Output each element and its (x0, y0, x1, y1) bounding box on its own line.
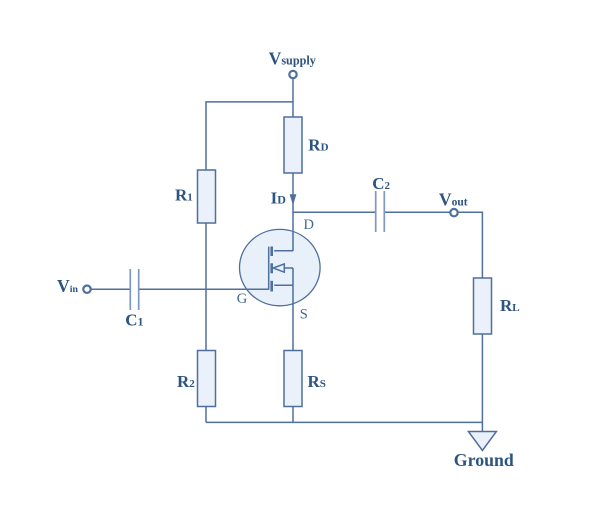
terminal Vin (83, 286, 90, 293)
wire Vin to C1 (91, 288, 130, 290)
wire source to RS (292, 285, 294, 350)
mosfet source internal lead (274, 284, 293, 286)
resistor R2 (198, 351, 216, 407)
wire R1 to R2 (205, 223, 207, 351)
wire R2 to ground bus (205, 407, 207, 423)
wire C1 to gate (139, 288, 268, 290)
resistor RL (474, 278, 492, 334)
mosfet channel bar source (270, 281, 273, 292)
wire Vout to RL (459, 212, 483, 278)
wire supply to RD (292, 79, 294, 117)
resistor RD (284, 117, 302, 173)
capacitor C1 plate left (129, 269, 131, 310)
wire branch supply to R1 (206, 102, 293, 170)
wire C2 to Vout (385, 211, 450, 213)
capacitor C1 plate right (138, 269, 140, 310)
terminal Vout (450, 209, 457, 216)
arrowhead ID (290, 194, 297, 205)
wire RS to ground bus (292, 407, 294, 423)
wire RL to ground (481, 334, 483, 432)
mosfet body lead (284, 267, 293, 269)
terminal Vsupply (289, 71, 296, 78)
svg-text:D: D (304, 217, 314, 233)
capacitor C2 plate left (375, 191, 377, 232)
mosfet drain internal lead (274, 250, 293, 252)
mosfet M1 body circle (239, 229, 320, 305)
resistor RS (284, 351, 302, 407)
mosfet body arrow (273, 264, 284, 272)
wire drain to C2 (293, 211, 375, 213)
mosfet gate plate (268, 247, 270, 290)
capacitor C2 plate right (383, 191, 385, 232)
svg-text:S: S (300, 307, 308, 323)
ground bus wire (206, 421, 482, 423)
mosfet channel bar body (270, 263, 273, 273)
mosfet body to source tie (292, 268, 294, 285)
svg-text:Ground: Ground (454, 450, 514, 470)
ground symbol (468, 432, 496, 451)
svg-text:G: G (237, 291, 248, 307)
wire drain with current arrow (292, 173, 294, 251)
resistor R1 (198, 170, 216, 223)
mosfet channel bar drain (270, 247, 273, 257)
